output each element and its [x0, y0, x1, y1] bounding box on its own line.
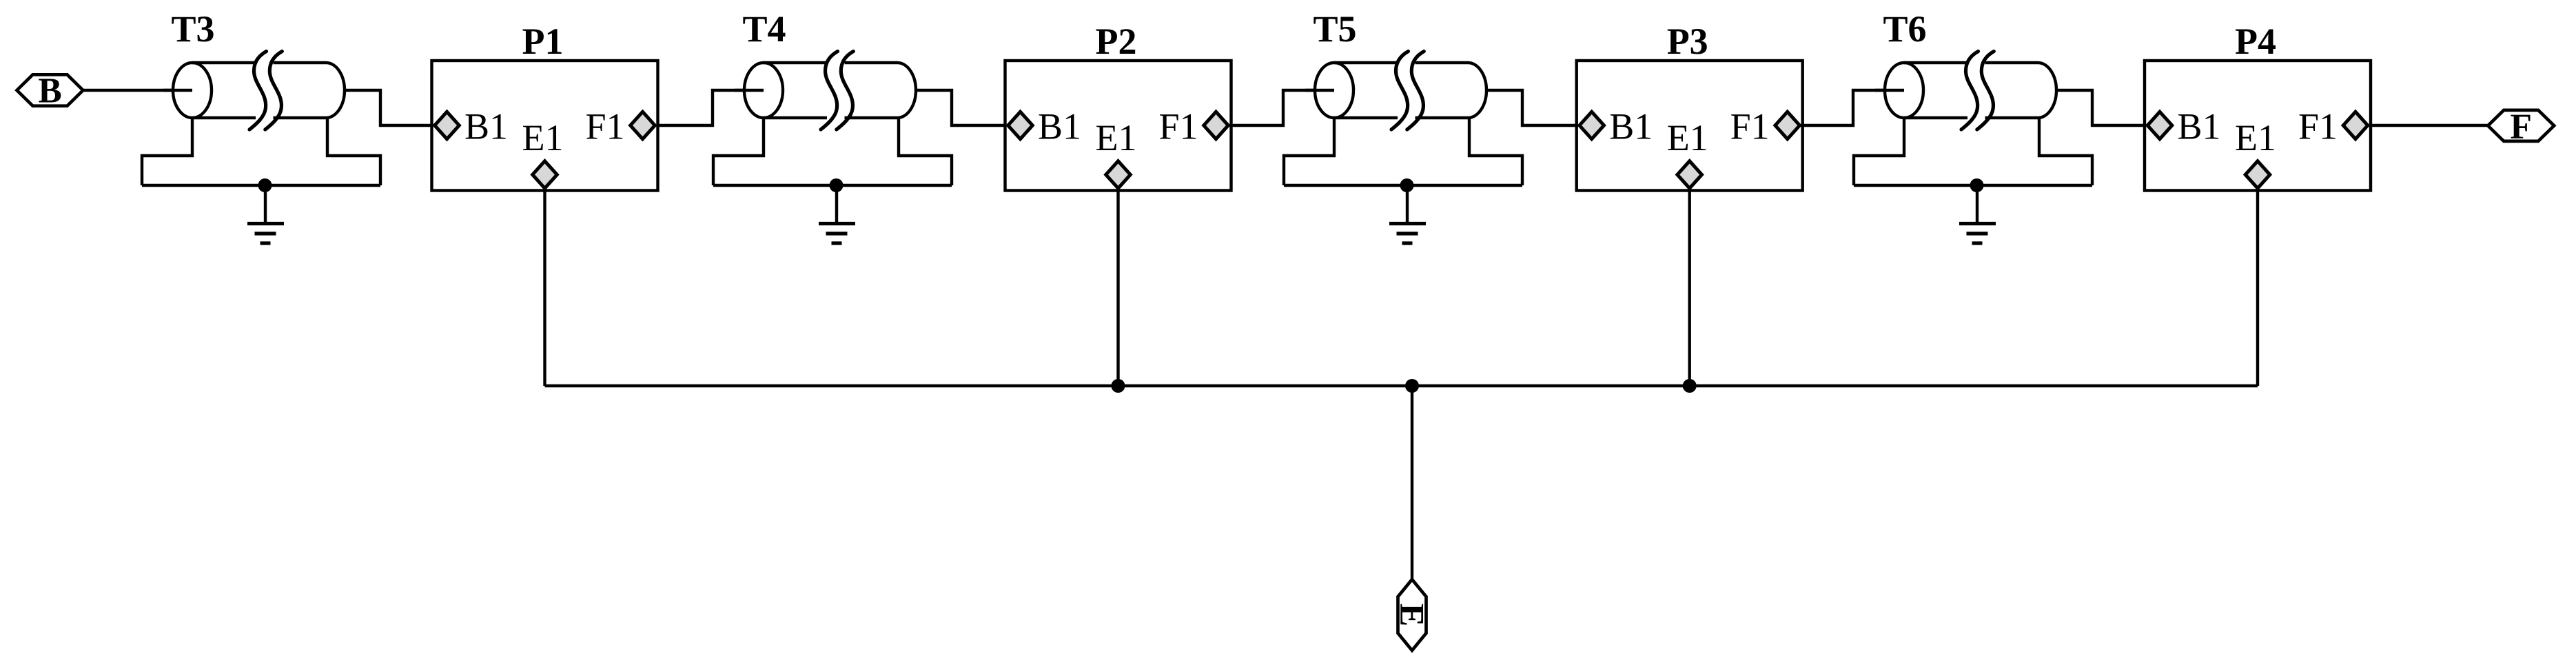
wire E1 of P4 to E bus	[2256, 191, 2259, 387]
wire E1 of P3 to E bus	[1688, 191, 1690, 387]
pin E1 of P4	[2245, 161, 2270, 189]
wire P4 F1 to port F	[2371, 124, 2488, 127]
wire shield left leg	[1284, 118, 1334, 185]
pin E1 of P2	[1106, 161, 1131, 189]
svg-text:P4: P4	[2235, 21, 2276, 62]
svg-text:T3: T3	[171, 8, 214, 50]
wire E bus to port E	[1411, 386, 1413, 579]
svg-text:F1: F1	[585, 106, 624, 147]
wire B to T3	[83, 89, 192, 92]
pin F1 of P2	[1204, 112, 1229, 139]
svg-text:B1: B1	[1038, 106, 1081, 147]
svg-text:P3: P3	[1667, 21, 1708, 62]
svg-text:B1: B1	[2178, 106, 2221, 147]
wire shield right leg	[1469, 118, 1522, 185]
wire shield left leg	[142, 118, 192, 185]
wire shield bottom	[1854, 184, 2092, 187]
svg-text:E1: E1	[1096, 117, 1137, 158]
transmission line T3	[163, 52, 345, 130]
junction shield-ground	[830, 178, 844, 192]
ground	[247, 185, 284, 243]
wire shield left leg	[713, 118, 764, 185]
svg-text:T4: T4	[742, 8, 786, 50]
svg-text:B: B	[38, 71, 61, 110]
wire P3 F1 to T6	[1803, 90, 1904, 125]
pin F1 of P4	[2343, 112, 2368, 139]
junction E bus port E	[1405, 379, 1419, 393]
wire shield right leg	[327, 118, 380, 185]
ground	[1959, 185, 1996, 243]
wire shield bottom	[142, 184, 380, 187]
block P2	[1005, 61, 1231, 191]
pin E1 of P3	[1677, 161, 1702, 189]
wire E1 of P2 to E bus	[1116, 191, 1119, 387]
junction shield-ground	[258, 178, 272, 192]
svg-text:E1: E1	[1667, 117, 1708, 158]
svg-text:E1: E1	[2235, 117, 2276, 158]
svg-text:B1: B1	[464, 106, 508, 147]
svg-text:P1: P1	[522, 21, 564, 62]
wire E net bus	[545, 384, 2258, 387]
svg-text:E1: E1	[522, 117, 564, 158]
svg-text:P2: P2	[1096, 21, 1137, 62]
pin B1 of P3	[1580, 112, 1604, 139]
junction E bus P2	[1112, 379, 1125, 393]
wire shield right leg	[899, 118, 952, 185]
svg-text:F: F	[2510, 107, 2531, 146]
pin E1 of P1	[533, 161, 558, 189]
wire shield left leg	[1854, 118, 1904, 185]
junction E bus P3	[1683, 379, 1697, 393]
transmission line T6	[1875, 52, 2056, 130]
block P4	[2145, 61, 2371, 191]
port F	[2488, 107, 2554, 146]
block P3	[1577, 61, 1803, 191]
pin B1 of P1	[435, 112, 460, 139]
svg-text:F1: F1	[1730, 106, 1770, 147]
port E	[1393, 579, 1432, 650]
junction shield-ground	[1970, 178, 1984, 192]
wire T3 to P1 B1	[345, 90, 432, 125]
wire shield bottom	[1284, 184, 1522, 187]
wire E1 of P1 to E bus	[543, 191, 546, 387]
ground	[1389, 185, 1426, 243]
wire T6 to P4 B1	[2056, 90, 2145, 125]
ground	[819, 185, 855, 243]
svg-text:F1: F1	[1158, 106, 1198, 147]
block P1	[432, 61, 658, 191]
pin F1 of P3	[1775, 112, 1800, 139]
wire shield bottom	[713, 184, 952, 187]
pin F1 of P1	[631, 112, 655, 139]
wire shield right leg	[2039, 118, 2092, 185]
transmission line T5	[1305, 52, 1486, 130]
pin B1 of P4	[2147, 112, 2172, 139]
transmission line T4	[735, 52, 916, 130]
svg-text:E: E	[1393, 604, 1432, 626]
svg-text:T6: T6	[1883, 8, 1926, 50]
svg-text:F1: F1	[2298, 106, 2338, 147]
wire P2 F1 to T5	[1231, 90, 1335, 125]
svg-text:B1: B1	[1609, 106, 1653, 147]
svg-text:T5: T5	[1313, 8, 1356, 50]
wire T5 to P3 B1	[1486, 90, 1577, 125]
wire T4 to P2 B1	[916, 90, 1005, 125]
pin B1 of P2	[1008, 112, 1033, 139]
wire P1 F1 to T4	[658, 90, 764, 125]
junction shield-ground	[1400, 178, 1414, 192]
port B	[17, 71, 83, 110]
